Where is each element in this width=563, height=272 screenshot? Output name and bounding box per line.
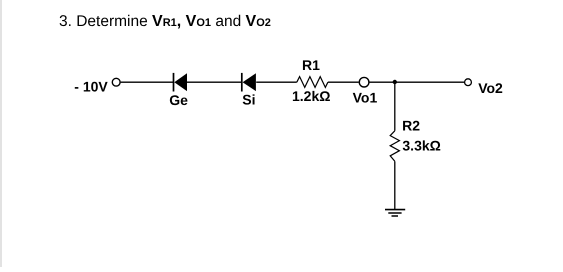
svg-text:1.2kΩ: 1.2kΩ — [292, 88, 330, 104]
svg-text:3. Determine VR1, VO1 and VO2: 3. Determine VR1, VO1 and VO2 — [59, 13, 271, 30]
svg-text:Vo2: Vo2 — [478, 80, 503, 96]
svg-text:Vo1: Vo1 — [353, 90, 378, 106]
svg-text:Si: Si — [242, 92, 255, 108]
svg-text:- 10V: - 10V — [74, 78, 108, 94]
svg-text:R1: R1 — [302, 57, 320, 73]
svg-text:Ge: Ge — [169, 92, 188, 108]
svg-text:3.3kΩ: 3.3kΩ — [402, 138, 440, 154]
svg-text:R2: R2 — [402, 117, 420, 133]
